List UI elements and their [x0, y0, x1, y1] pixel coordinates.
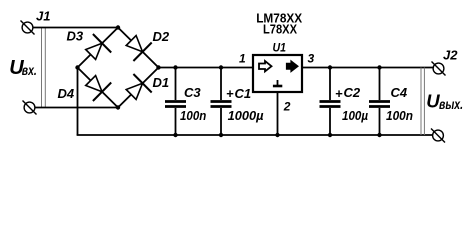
junction dot bridge top corner — [116, 25, 120, 29]
svg-text:J1: J1 — [36, 9, 50, 24]
svg-text:100n: 100n — [386, 108, 413, 123]
svg-text:J2: J2 — [443, 48, 458, 63]
wire: bridge right corner to regulator pin 1 (DC+) — [159, 67, 254, 69]
svg-text:C3: C3 — [184, 85, 201, 100]
wire: ground rail (DC-) — [77, 134, 433, 136]
diode D3 (left corner to top corner) — [86, 34, 112, 60]
voltage regulator U1 box — [253, 55, 302, 92]
svg-text:100µ: 100µ — [342, 108, 368, 123]
svg-text:C1: C1 — [235, 86, 252, 101]
wire: bridge left corner down to ground rail (DC-) — [77, 68, 79, 136]
svg-text:D2: D2 — [153, 29, 170, 44]
svg-text:вых.: вых. — [439, 96, 463, 112]
capacitor C3 — [165, 68, 186, 136]
junction dot bridge left corner — [75, 65, 79, 69]
connector J2 pin 2 (bottom terminal circle with slash) — [431, 129, 445, 143]
U1 output arrow (filled) — [287, 61, 299, 72]
connector J1 pin 1 (top terminal circle with slash) — [21, 21, 35, 35]
wire: regulator pin 2 to ground rail — [277, 92, 279, 135]
bridge diamond wires — [78, 28, 159, 108]
svg-text:D1: D1 — [153, 75, 170, 90]
junction dot C3 top — [173, 65, 177, 69]
svg-text:3: 3 — [308, 52, 315, 66]
junction dot C4 top — [377, 65, 381, 69]
diode D4 (left corner to bottom corner) — [86, 76, 112, 102]
junction dot bridge bottom corner — [116, 105, 120, 109]
junction dot bridge right corner — [156, 65, 160, 69]
svg-text:100n: 100n — [180, 108, 206, 123]
junction dot C2 bottom — [328, 133, 332, 137]
svg-text:1000µ: 1000µ — [228, 108, 264, 123]
capacitor C1 (electrolytic) — [211, 68, 232, 136]
junction dot C2 top — [328, 65, 332, 69]
svg-text:C4: C4 — [391, 85, 408, 100]
junction dot pin2 / rail — [275, 133, 279, 137]
svg-text:L78XX: L78XX — [263, 22, 297, 37]
connector J2 body (double line) — [421, 68, 424, 136]
diode D2 (top corner to right corner) — [126, 36, 152, 62]
diode D1 (bottom corner to right corner) — [126, 74, 152, 100]
U1 internal ground symbol — [273, 80, 282, 86]
svg-text:+: + — [335, 86, 343, 101]
junction dot C1 bottom — [219, 133, 223, 137]
svg-text:1: 1 — [239, 52, 246, 66]
wire: J1 pin2 to bridge bottom corner (AC2) — [35, 107, 119, 109]
wire: J1 pin1 to bridge top corner (AC1) — [33, 27, 119, 29]
svg-text:вх.: вх. — [22, 62, 37, 78]
U1 input arrow (open) — [259, 61, 272, 71]
junction dot C4 bottom — [377, 133, 381, 137]
connector J1 pin 2 (bottom terminal circle with slash) — [23, 101, 37, 115]
junction dot C3 bottom — [173, 133, 177, 137]
connector J2 pin 1 (top terminal circle with slash) — [432, 62, 446, 76]
svg-text:2: 2 — [283, 99, 291, 113]
svg-text:D3: D3 — [67, 29, 84, 44]
svg-text:U1: U1 — [273, 41, 287, 55]
svg-text:D4: D4 — [58, 86, 75, 101]
svg-text:C2: C2 — [344, 85, 361, 100]
junction dot C1 top — [219, 65, 223, 69]
wire: regulator pin 3 to J2 pin 1 (output) — [302, 67, 434, 69]
capacitor C4 — [369, 68, 390, 136]
capacitor C2 (electrolytic) — [320, 68, 341, 136]
svg-text:+: + — [226, 86, 234, 101]
connector J1 body (double line) — [42, 28, 46, 108]
